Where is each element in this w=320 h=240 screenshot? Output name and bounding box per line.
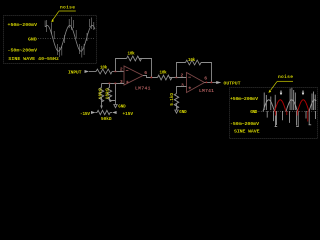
svg-text:10k: 10k	[188, 58, 196, 63]
svg-text:LM741: LM741	[199, 88, 214, 94]
resistor R7 5.1k (vertical to GND)	[174, 94, 178, 109]
svg-text:+50m~200mV: +50m~200mV	[8, 22, 38, 28]
svg-text:SINE WAVE: SINE WAVE	[234, 128, 260, 134]
op-amp U1 LM741	[124, 66, 143, 85]
svg-text:-50m~200mV: -50m~200mV	[8, 48, 38, 54]
svg-text:OUTPUT: OUTPUT	[224, 81, 241, 87]
junction node output/feedback2	[211, 82, 213, 84]
junction node pin3/gnd wire	[115, 83, 117, 85]
scope box 1 (input waveform, dotted border)	[4, 16, 97, 64]
wire U2 pin3 to R7	[177, 87, 187, 94]
svg-text:GND: GND	[28, 36, 37, 42]
resistor R1 10k (input)	[96, 69, 112, 74]
svg-text:noise: noise	[60, 4, 75, 10]
white noise arrow 1	[280, 91, 283, 96]
box1 GND dotted line	[38, 38, 95, 40]
svg-text:2: 2	[120, 66, 123, 72]
resistor R5 10k (interstage)	[158, 75, 172, 80]
resistor R6 10k (feedback stage2)	[186, 60, 202, 65]
box1 sine waveform	[46, 26, 96, 52]
svg-text:3: 3	[181, 83, 184, 89]
feedback wire stage1 up	[116, 59, 127, 72]
ground (stage1)	[114, 105, 117, 108]
junction node at pin6	[206, 82, 208, 84]
svg-text:noise: noise	[278, 74, 293, 80]
scope box 2 (output waveform, dotted border)	[230, 88, 318, 139]
wire R1 to op-amp pin2	[112, 71, 124, 73]
svg-text:GND: GND	[118, 106, 126, 110]
wire U1 output to R5	[143, 76, 158, 78]
svg-text:6: 6	[204, 76, 207, 82]
wire U1 pin3	[102, 83, 125, 85]
feedback wire stage2 up	[177, 63, 186, 78]
svg-text:-50m~200mV: -50m~200mV	[230, 121, 259, 127]
ground (stage2)	[175, 110, 178, 113]
svg-text:10k: 10k	[128, 52, 136, 57]
op-amp U2 LM741	[187, 73, 205, 93]
svg-text:2: 2	[181, 72, 184, 78]
junction node output1/feedback	[151, 77, 153, 79]
potentiometer 50k	[97, 110, 110, 114]
svg-text:50kΩ: 50kΩ	[101, 117, 112, 122]
svg-text:GND: GND	[179, 111, 187, 115]
white noise arrow 2	[302, 91, 305, 96]
resistor R4 10k (vertical, to GND)	[109, 84, 111, 88]
svg-text:3: 3	[120, 79, 123, 85]
feedback wire stage1 down to output	[139, 59, 152, 78]
wiper arrow from R3 to potentiometer	[101, 98, 103, 107]
svg-text:+50m~200mV: +50m~200mV	[230, 96, 258, 102]
feedback wire stage2 down to output	[201, 63, 212, 83]
junction node (feedback tap, stage 1)	[115, 71, 117, 73]
wire junction down to ground	[115, 84, 117, 105]
svg-text:LM741: LM741	[135, 86, 151, 92]
box2 noise bars (gray)	[264, 88, 315, 127]
box2 red noise tails	[275, 111, 307, 122]
box2 rectified waveform humps	[263, 100, 275, 112]
svg-text:5.1kΩ: 5.1kΩ	[170, 93, 175, 106]
svg-text:10k: 10k	[100, 66, 108, 71]
box1 noise spikes	[45, 17, 94, 58]
wire U2 output	[205, 82, 217, 84]
svg-text:INPUT: INPUT	[68, 70, 82, 76]
box2 GND dotted line	[259, 111, 317, 113]
wire R5 to U2 pin2	[170, 77, 187, 79]
svg-text:+15V: +15V	[123, 112, 134, 117]
svg-text:SINE WAVE 40~55Hz: SINE WAVE 40~55Hz	[8, 56, 59, 62]
svg-text:10k: 10k	[160, 70, 168, 75]
resistor R3 10k (vertical, to pot wiper)	[101, 84, 103, 88]
junction node (feedback tap, stage 2)	[176, 77, 178, 79]
junction node pin3/R4	[109, 83, 111, 85]
resistor R2 10k (feedback stage1)	[127, 56, 142, 61]
OUTPUT port	[216, 81, 221, 84]
svg-text:GND: GND	[250, 109, 257, 115]
wire input to R1	[89, 71, 96, 73]
svg-text:-15V: -15V	[80, 112, 90, 117]
